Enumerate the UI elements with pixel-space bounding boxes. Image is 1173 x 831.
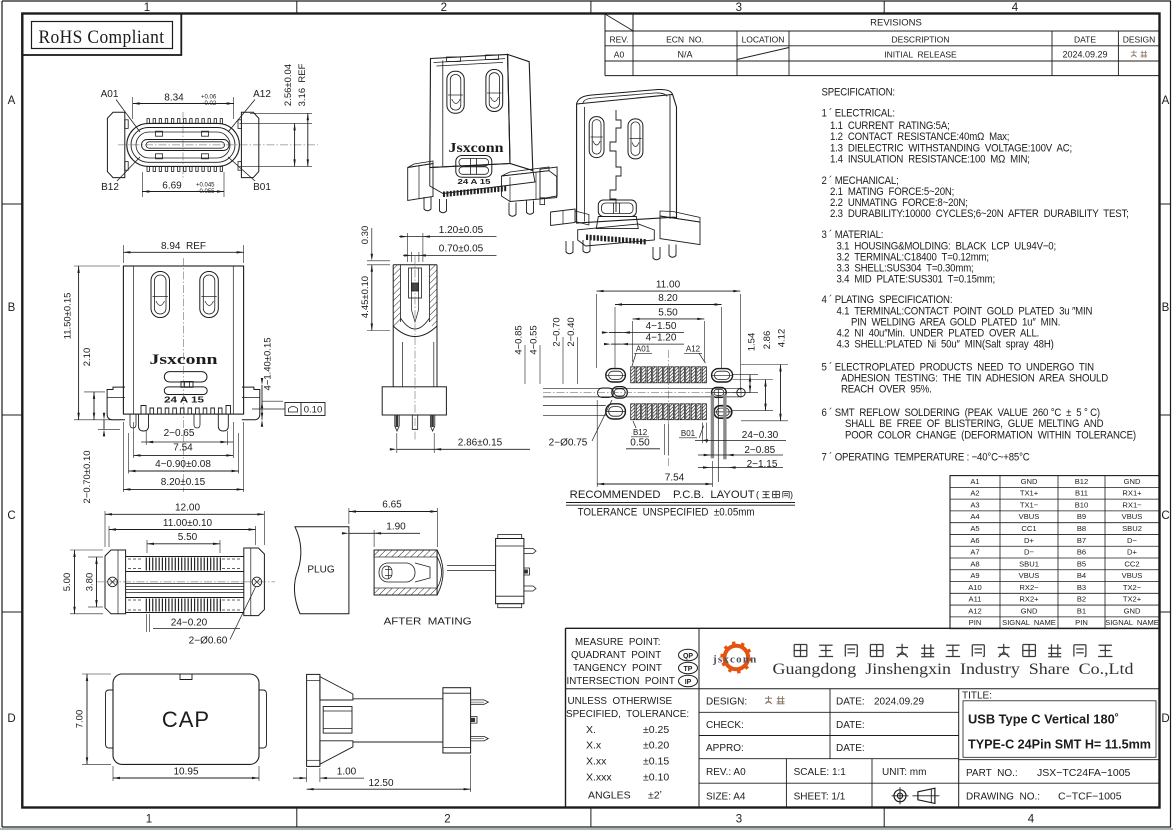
svg-text:B5: B5 [1077,559,1086,568]
svg-text:11.00±0.10: 11.00±0.10 [163,518,213,529]
svg-text:1.2 CONTACT RESISTANCE:40mΩ: 1.2 CONTACT RESISTANCE:40mΩ Max; [830,132,1009,144]
svg-text:B4: B4 [1077,571,1086,580]
svg-text:4.2 NI 40u″Min. UNDER PLAT: 4.2 NI 40u″Min. UNDER PLATED OVER ALL. [837,328,1040,340]
iso view 1 feet [424,197,431,211]
top view center lines [182,112,184,178]
svg-text:A01: A01 [636,345,651,354]
dimension 2.56 right [239,122,312,124]
svg-text:±0.20: ±0.20 [643,739,669,751]
pcb oval pads middle [598,388,614,398]
svg-text:−0.055: −0.055 [196,189,215,195]
svg-text:TANGENCY POINT: TANGENCY POINT [573,663,662,674]
front view slot 1 [151,272,170,318]
svg-text:C: C [7,510,15,522]
side view pins [395,415,399,431]
side view center line [414,256,416,440]
svg-text:6.69: 6.69 [162,181,182,192]
svg-text:12.00: 12.00 [175,503,200,514]
svg-text:REVISIONS: REVISIONS [870,18,922,29]
iso view 2 collar belt [598,200,636,217]
iso view 2 far left wing [540,167,557,199]
svg-text:1: 1 [144,2,150,14]
pcb oval pad bottom left [606,404,626,419]
svg-text:B6: B6 [1077,548,1086,557]
svg-text:3.4 MID PLATE:SUS301 T=0.15: 3.4 MID PLATE:SUS301 T=0.15mm; [837,274,995,286]
pcb mid guide lines [543,387,741,389]
hsec left cap [105,550,126,614]
svg-text:0.70±0.05: 0.70±0.05 [439,244,484,255]
svg-text:A12: A12 [253,89,271,100]
svg-text:D+: D+ [1127,548,1137,557]
svg-text:B2: B2 [1077,595,1086,604]
svg-text:8.20±0.15: 8.20±0.15 [161,477,206,488]
iso view 2 right wing [660,216,700,245]
svg-text:A: A [1162,95,1170,107]
svg-text:B10: B10 [1075,500,1089,509]
svg-text:B1: B1 [1077,606,1086,615]
svg-text:24 A 15: 24 A 15 [164,396,205,405]
svg-text:REACH OVER 95%.: REACH OVER 95%. [841,384,932,396]
dimension 7.00 [82,673,111,675]
cap side tabs [106,690,114,748]
svg-text:2−0.65: 2−0.65 [164,428,195,439]
front view bottom feet [139,414,149,431]
hsec screw right [252,577,262,587]
hsec center rails [126,583,244,585]
svg-text:8.20: 8.20 [658,293,678,304]
top view pin comb top [147,119,149,124]
svg-text:7.54: 7.54 [665,472,685,483]
top view inner pads [156,131,163,136]
iso view 2 comb row [586,235,646,245]
svg-text:2.86±0.15: 2.86±0.15 [458,438,503,449]
pcb oval pad top left [606,369,626,382]
capside tube [353,698,443,700]
pcb pads bottom row [631,404,635,420]
svg-text:REV.: A0: REV.: A0 [706,767,746,778]
svg-text:A7: A7 [970,548,979,557]
svg-text:Jsxconn: Jsxconn [449,140,505,155]
svg-text:24−0.20: 24−0.20 [171,618,208,629]
svg-text:1 ´ ELECTRICAL:: 1 ´ ELECTRICAL: [821,107,894,120]
top view pin comb bottom [147,166,149,171]
svg-text:2024.09.29: 2024.09.29 [874,697,924,708]
svg-text:1.54: 1.54 [746,333,757,352]
svg-text:RX2−: RX2− [1019,583,1039,592]
svg-text:1.00: 1.00 [337,766,357,777]
svg-text:+0.06: +0.06 [201,95,217,101]
svg-text:2.86: 2.86 [762,331,773,350]
dimension 1.90 [373,530,375,547]
front view body [123,266,243,414]
svg-text:B12: B12 [1075,477,1089,486]
pcb pads top row [631,367,635,383]
svg-text:A01: A01 [101,89,119,100]
svg-text:B: B [8,302,16,314]
svg-text:B12: B12 [633,428,648,437]
corner diagonal [605,14,633,31]
pcb via slot bars [711,394,714,458]
svg-text:TX2+: TX2+ [1123,595,1142,604]
svg-text:GND: GND [1021,606,1038,615]
top view tongue [142,140,230,151]
svg-text:VBUS: VBUS [1019,571,1040,580]
top view shell outline [127,123,240,166]
iso view 2 slot 2 [628,119,643,159]
svg-text:2.10: 2.10 [82,348,93,367]
svg-text:RoHS Compliant: RoHS Compliant [39,27,165,48]
top view wing tabs [125,120,128,129]
svg-text:5.50: 5.50 [658,307,678,318]
after mating pins [524,549,536,554]
dimension 1.20 [406,233,408,262]
front view bottom pegs [130,414,136,428]
front view left wing [107,387,125,420]
svg-text:C−TCF−1005: C−TCF−1005 [1058,791,1122,803]
svg-text:SPECIFICATION:: SPECIFICATION: [821,87,894,99]
svg-text:X.x: X.x [586,739,602,751]
dimension 8.94 REF [122,245,124,263]
svg-text:PLUG: PLUG [307,565,334,576]
svg-text:7.54: 7.54 [173,443,193,454]
svg-text:X.xx: X.xx [586,756,607,768]
svg-text:TX1−: TX1− [1020,500,1039,509]
front view slot 2 [200,272,219,318]
svg-text:X.xxx: X.xxx [586,772,612,784]
svg-text:(: ( [756,490,759,500]
svg-text:B11: B11 [1075,489,1088,498]
svg-text:4 ´ PLATING SPECIFICATION:: 4 ´ PLATING SPECIFICATION: [821,294,952,307]
svg-text:A0: A0 [614,50,625,60]
iso view 2 left wing [551,209,576,226]
pin assignment table [950,476,1160,629]
svg-text:6.65: 6.65 [382,500,402,511]
svg-text:2.1 MATING FORCE:5~20N;: 2.1 MATING FORCE:5~20N; [830,186,954,198]
svg-text:SBU2: SBU2 [1122,524,1142,533]
projection symbols [894,790,906,802]
side view lower stem [402,342,404,387]
svg-text:4−0.55: 4−0.55 [528,325,539,354]
svg-text:7.00: 7.00 [75,710,86,729]
svg-text:A6: A6 [970,536,979,545]
hsec screw left [108,577,118,587]
svg-text:2−0.85: 2−0.85 [744,445,775,456]
svg-text:D−: D− [1024,548,1034,557]
side view base block [382,387,446,415]
svg-text:SPECIFIED, TOLERANCE:: SPECIFIED, TOLERANCE: [566,709,689,720]
svg-text:D+: D+ [1024,536,1034,545]
svg-text:1: 1 [146,814,152,826]
svg-text:5.50: 5.50 [178,532,198,543]
profile flag 0.10 [252,408,285,410]
svg-text:0.10: 0.10 [304,404,323,415]
iso view 1 body [430,54,510,167]
svg-text:24 A 15: 24 A 15 [458,179,491,186]
svg-text:2−1.15: 2−1.15 [747,459,778,470]
iso view 1 slot 1 [447,71,464,113]
svg-text:IP: IP [685,679,692,686]
RoHS Compliant box [22,14,181,56]
iso view 1 belt detail [456,156,492,178]
svg-text:±2ʼ: ±2ʼ [648,789,662,801]
svg-text:1.20±0.05: 1.20±0.05 [439,225,484,236]
dimension 4-1.40 [262,400,283,402]
plug mated shell [374,550,437,595]
svg-text:TP: TP [684,666,693,673]
svg-text:B01: B01 [681,429,696,438]
front view belt detail [164,372,207,382]
svg-text:1.1 CURRENT RATING:5A;: 1.1 CURRENT RATING:5A; [830,120,950,132]
top view right wing [241,112,258,177]
svg-text:A9: A9 [970,571,979,580]
svg-text:4−0.85: 4−0.85 [513,325,524,354]
plug tail rails [447,565,496,567]
svg-text:8.34: 8.34 [164,92,184,103]
dimension 11.00 [596,294,598,368]
iso view 1 top slots [447,57,461,62]
iso view 2 feet [566,241,573,254]
side view terminal detail [409,268,422,298]
svg-text:CAP: CAP [162,707,210,732]
svg-text:CC2: CC2 [1124,559,1139,568]
svg-text:RECOMMENDED P.C.B. LAYOUT: RECOMMENDED P.C.B. LAYOUT [570,489,755,501]
svg-text:0.50: 0.50 [630,438,650,449]
svg-text:C: C [1161,510,1169,522]
hsec bottom rail [126,597,244,599]
front view right wing [242,387,260,420]
dimension 1.00 [306,768,308,782]
svg-text:JSX−TC24FA−1005: JSX−TC24FA−1005 [1037,767,1131,779]
svg-text:D: D [7,713,15,725]
svg-text:VBUS: VBUS [1122,512,1143,521]
iso view 1 slot 2 [486,70,503,112]
svg-text:1.90: 1.90 [386,522,406,533]
svg-text:DRAWING NO.:: DRAWING NO.: [966,792,1040,803]
svg-text:QUADRANT POINT: QUADRANT POINT [571,650,661,661]
svg-text:PART NO.:: PART NO.: [966,768,1018,779]
dimension 6.69 bottom [141,172,143,197]
rev scale unit row [699,782,959,784]
svg-text:A3: A3 [970,500,979,509]
svg-text:10.95: 10.95 [173,766,198,777]
svg-text:APPRO:: APPRO: [706,743,744,754]
svg-text:B8: B8 [1077,524,1086,533]
svg-text:A11: A11 [969,595,982,604]
svg-text:TOLERANCE UNSPECIFIED ±0.05m: TOLERANCE UNSPECIFIED ±0.05mm [578,507,755,519]
svg-text:TX2−: TX2− [1123,583,1142,592]
dimension 4.45 [367,264,390,266]
iso view 1 left wing [408,164,433,201]
svg-text:±0.25: ±0.25 [643,724,669,736]
svg-text:RX1−: RX1− [1122,500,1142,509]
svg-text:4.12: 4.12 [777,329,788,348]
svg-text:A8: A8 [970,559,979,568]
svg-text:RX2+: RX2+ [1019,595,1039,604]
svg-text:A10: A10 [968,583,982,592]
iso view 1 right wing [502,171,557,202]
dimension 24-0.20 [146,614,148,632]
design/check/appro rows [699,711,959,713]
svg-text:PIN WELDING AREA GOLD PLAT: PIN WELDING AREA GOLD PLATED 1u″ MIN. [851,317,1060,329]
svg-text:INTERSECTION POINT: INTERSECTION POINT [567,676,675,687]
dimension 5.00 [70,549,103,551]
side view hatch right [430,265,438,328]
svg-text:3: 3 [736,2,742,14]
svg-text:2: 2 [444,814,450,826]
svg-text:SIGNAL NAME: SIGNAL NAME [1105,618,1159,627]
svg-text:A12: A12 [686,345,701,354]
dimension 2-0.65 [145,431,147,445]
side view inner walls [400,265,402,322]
svg-text:SIZE: A4: SIZE: A4 [706,791,746,802]
svg-text:2−0.70±0.10: 2−0.70±0.10 [82,450,93,503]
svg-text:A5: A5 [970,524,979,533]
capside inner box [323,707,352,734]
svg-text:+0.045: +0.045 [196,183,215,189]
svg-text:4−1.50: 4−1.50 [646,321,677,332]
dimension 3.16 REF right [307,113,309,166]
svg-text:GND: GND [1124,477,1141,486]
svg-text:1.4 INSULATION RESISTANCE:10: 1.4 INSULATION RESISTANCE:100 MΩ MIN; [830,154,1030,166]
svg-text:7 ´ OPERATING TEMPERATURE : −: 7 ´ OPERATING TEMPERATURE : −40°C~+85°C [821,451,1030,464]
svg-text:3: 3 [736,814,742,826]
svg-text:Guangdong Jinshengxin Indust: Guangdong Jinshengxin Industry Share Co.… [773,661,1134,678]
svg-text:PIN: PIN [1075,618,1088,627]
svg-text:2−Ø0.60: 2−Ø0.60 [189,636,228,647]
svg-text:1.3 DIELECTRIC WITHSTANDING: 1.3 DIELECTRIC WITHSTANDING VOLTAGE:100V… [830,143,1072,155]
svg-text:4−1.40±0.15: 4−1.40±0.15 [263,337,274,390]
capside hood top [320,677,353,700]
iso view 1 base slab [430,164,535,194]
svg-text:2−Ø0.75: 2−Ø0.75 [549,438,588,449]
front view center line [183,258,185,492]
dimension 8.20 [122,422,124,492]
after mating fixture [496,539,524,604]
svg-text:5 ´ ELECTROPLATED PRODUCTS N: 5 ´ ELECTROPLATED PRODUCTS NEED TO UNDER… [821,361,1093,374]
svg-text:DESCRIPTION: DESCRIPTION [891,34,949,44]
dimension 12.50 [470,755,472,792]
dimension 7.54 pcb [596,400,598,487]
top view left wing [107,112,124,177]
svg-text:SHALL BE FREE OF BLISTERIN: SHALL BE FREE OF BLISTERING, GLUE MELTIN… [845,419,1104,431]
iso view 2 base slab [578,224,655,246]
dimension 3.80 [88,556,103,558]
iso view 2 slot 1 [589,117,604,158]
side view hatch left [393,265,400,328]
revisions table [604,14,606,76]
svg-text:SIGNAL NAME: SIGNAL NAME [1002,618,1056,627]
svg-text:−0.02: −0.02 [201,101,217,107]
svg-text:POOR COLOR CHANGE (DEFORMAT: POOR COLOR CHANGE (DEFORMATION WITHIN TO… [845,430,1136,442]
svg-text:UNLESS OTHERWISE: UNLESS OTHERWISE [568,696,673,707]
svg-text:RX1+: RX1+ [1122,489,1142,498]
dimension 11.00 hsec [108,526,110,547]
dimension 4-1.50 [609,332,623,334]
svg-text:2: 2 [441,2,447,14]
dimension 8.34 top [132,97,134,119]
svg-text:TYPE-C 24Pin SMT H= 11.5mm: TYPE-C 24Pin SMT H= 11.5mm [968,737,1151,752]
svg-text:DATE:: DATE: [836,720,865,731]
page outer border [2,0,1171,2]
svg-text:12.50: 12.50 [368,778,393,789]
dimension 5.50 hsec [146,540,148,553]
svg-text:ANGLES: ANGLES [588,789,631,801]
svg-text:A2: A2 [970,489,979,498]
capside pins [471,700,489,704]
svg-text:A: A [8,95,16,107]
svg-text:4: 4 [1028,814,1035,826]
svg-text:4.45±0.10: 4.45±0.10 [360,276,371,318]
dimension 8.20 pcb [614,307,616,368]
front view inner walls [133,266,135,414]
svg-text:X.: X. [586,724,596,736]
part no row [959,759,1160,761]
designer name stamp [1131,51,1137,53]
specification text block [821,87,1135,464]
iso view 2 right edge [669,96,671,220]
svg-text:4.1 TERMINAL:CONTACT POINT: 4.1 TERMINAL:CONTACT POINT GOLD PLATED 3… [837,306,1093,318]
svg-text:CHECK:: CHECK: [706,720,744,731]
svg-text:2.56±0.04: 2.56±0.04 [283,64,294,106]
plug inner contact [379,563,415,582]
hsec bottom comb [145,599,147,612]
svg-text:MEASURE POINT:: MEASURE POINT: [575,637,660,648]
svg-text:USB Type C Vertical 180˚: USB Type C Vertical 180˚ [968,712,1119,727]
svg-text:jsxconn: jsxconn [712,654,757,666]
svg-text:B9: B9 [1077,512,1086,521]
cap top notch [180,674,192,680]
svg-text:24−0.30: 24−0.30 [742,430,779,441]
svg-text:11.00: 11.00 [656,280,681,291]
pcb center line [667,350,669,468]
svg-text:DESIGN:: DESIGN: [706,697,747,708]
svg-text:A12: A12 [968,606,982,615]
svg-text:PIN: PIN [969,618,982,627]
pcb oval pad top right [712,369,733,382]
svg-text:B: B [1162,302,1170,314]
iso view 2 center zigzag seam [610,110,621,212]
svg-text:±0.15: ±0.15 [643,756,669,768]
pcb oval pad bottom right [714,406,732,419]
svg-text:2.3 DURABILITY:10000 CYCLES;: 2.3 DURABILITY:10000 CYCLES;6~20N AFTER … [830,209,1129,221]
svg-text:6 ´ SMT REFLOW SOLDERING (P: 6 ´ SMT REFLOW SOLDERING (PEAK VALUE 260… [821,406,1099,419]
svg-text:): ) [790,490,793,500]
dimension 2-0.70 left [98,428,120,430]
hsec top comb [145,558,147,571]
svg-text:DATE: DATE [1074,34,1096,44]
dimension 12.00 [104,511,106,547]
svg-text:VBUS: VBUS [1019,512,1040,521]
dimension 11.50 [74,265,120,267]
svg-text:2 ´ MECHANICAL;: 2 ´ MECHANICAL; [821,174,898,187]
dimension 0.30 [367,260,390,262]
pcb small hole [737,388,745,396]
dimension 5.50 pcb [632,321,634,362]
svg-text:GND: GND [1124,606,1141,615]
company chinese name [794,644,807,646]
svg-text:4.3 SHELL:PLATED Ni 50u″ M: 4.3 SHELL:PLATED Ni 50u″ MIN(Salt spray … [837,339,1054,351]
svg-text:A1: A1 [970,477,979,486]
svg-text:GND: GND [1021,477,1038,486]
svg-text:4: 4 [1012,2,1019,14]
svg-text:3.2 TERMINAL:C18400 T=0.12mm: 3.2 TERMINAL:C18400 T=0.12mm; [837,252,989,264]
svg-text:REV.: REV. [609,34,628,44]
svg-text:SCALE: 1:1: SCALE: 1:1 [794,767,847,778]
iso view 2 top rim [577,89,673,104]
svg-text:2−0.70: 2−0.70 [551,317,562,346]
svg-text:3.1 HOUSING&MOLDING: BLACK: 3.1 HOUSING&MOLDING: BLACK LCP UL94V−0; [837,241,1056,253]
svg-text:CC1: CC1 [1021,524,1036,533]
